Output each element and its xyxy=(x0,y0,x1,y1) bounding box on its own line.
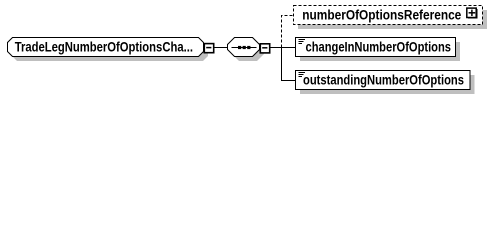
minus sign xyxy=(262,47,267,49)
data-content icon of outstandingNumberOfOptions xyxy=(299,72,306,74)
svg-text:TradeLegNumberOfOptionsCha...: TradeLegNumberOfOptionsCha... xyxy=(15,39,193,55)
expand handle (plus box) xyxy=(467,8,476,17)
wire: element to sequence xyxy=(214,47,228,49)
svg-text:outstandingNumberOfOptions: outstandingNumberOfOptions xyxy=(303,73,464,89)
element outstandingNumberOfOptions box xyxy=(296,71,471,90)
collapse handle (minus box) of element xyxy=(204,44,213,53)
solid wire: trunk down to outstandingNumberOfOptions xyxy=(282,48,296,81)
optional element numberOfOptionsReference box (dashed) xyxy=(294,6,483,25)
element changeInNumberOfOptions shadow xyxy=(300,42,460,61)
element TradeLegNumberOfOptionsCha... shadow xyxy=(12,42,208,61)
minus sign xyxy=(206,47,211,49)
data-content icon of changeInNumberOfOptions xyxy=(299,39,306,41)
expand handle (plus box) shadow xyxy=(468,9,478,19)
sequence dot 3 xyxy=(247,46,250,49)
element outstandingNumberOfOptions shadow xyxy=(300,75,475,94)
svg-text:numberOfOptionsReference: numberOfOptionsReference xyxy=(302,8,461,24)
svg-text:changeInNumberOfOptions: changeInNumberOfOptions xyxy=(306,40,452,56)
sequence inner line xyxy=(232,47,257,49)
element TradeLegNumberOfOptionsCha... box xyxy=(8,38,204,57)
sequence dot 2 xyxy=(243,46,246,49)
collapse handle (minus box) of sequence xyxy=(260,44,269,53)
wire: sequence to branch trunk and middle child xyxy=(270,47,296,49)
dashed wire: trunk up to optional child numberOfOptionsReference xyxy=(282,16,294,48)
optional element numberOfOptionsReference shadow xyxy=(298,10,487,29)
element changeInNumberOfOptions box xyxy=(296,38,456,57)
sequence compositor (octagon) xyxy=(228,38,260,57)
sequence compositor shadow xyxy=(232,42,264,61)
plus sign xyxy=(469,12,476,14)
sequence dot 1 xyxy=(238,46,241,49)
